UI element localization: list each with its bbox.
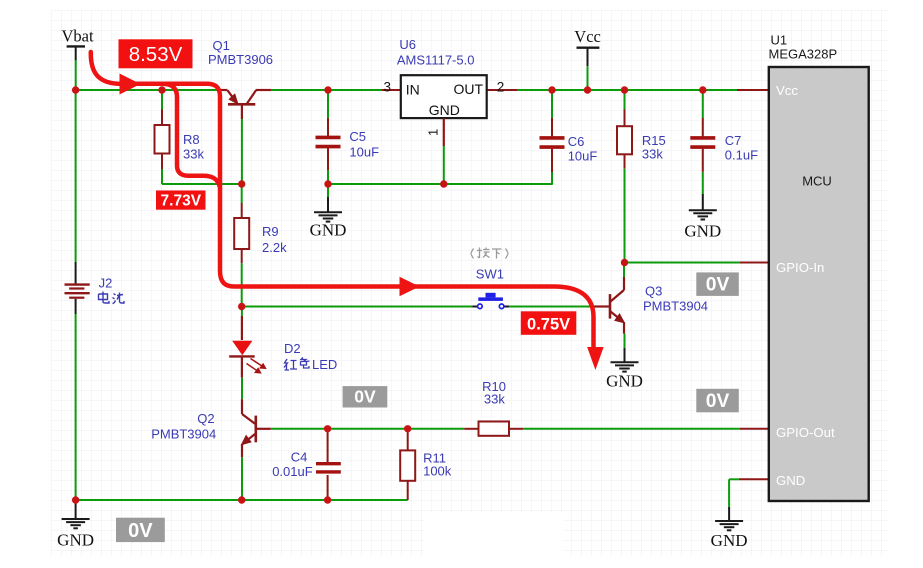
svg-text:10uF: 10uF bbox=[349, 145, 379, 160]
0V label above GPIO-Out row bbox=[343, 386, 388, 407]
switch SW1 bbox=[472, 293, 509, 309]
svg-text:R8: R8 bbox=[183, 132, 200, 147]
svg-text:Q2: Q2 bbox=[197, 411, 214, 426]
ground below Q3 emitter bbox=[606, 334, 643, 391]
wire SW1 to Q3 base bbox=[509, 306, 594, 308]
pin stub Q3 base bbox=[594, 305, 609, 307]
voltage label 8.53V bbox=[119, 39, 193, 68]
svg-text:0V: 0V bbox=[706, 275, 730, 296]
capacitor C7 bbox=[690, 90, 715, 172]
resistor R10 bbox=[464, 422, 523, 436]
red arrowhead 3 down to Q3 GND bbox=[587, 347, 604, 370]
wire left vertical Vbat to battery bbox=[75, 90, 77, 262]
svg-text:0V: 0V bbox=[706, 391, 730, 412]
wire GPIO-Out row left bbox=[271, 428, 464, 430]
svg-text:C4: C4 bbox=[291, 450, 308, 465]
LED D2 bbox=[229, 307, 265, 378]
capacitor C4 bbox=[316, 429, 341, 500]
svg-text:AMS1117-5.0: AMS1117-5.0 bbox=[397, 53, 475, 68]
svg-text:PMBT3906: PMBT3906 bbox=[208, 52, 273, 67]
wire U6 OUT to MCU Vcc bbox=[517, 89, 737, 91]
red arrowhead 1 at top rail bbox=[120, 74, 141, 95]
svg-text:Q3: Q3 bbox=[645, 284, 662, 299]
svg-text:33k: 33k bbox=[183, 147, 204, 162]
resistor R8 bbox=[155, 90, 170, 184]
svg-text:33k: 33k bbox=[642, 147, 663, 162]
svg-text:D2: D2 bbox=[284, 341, 301, 356]
wire MCU GND pin down to gnd bbox=[739, 478, 769, 480]
ground below MCU GND pin bbox=[711, 507, 748, 550]
svg-text:GND: GND bbox=[711, 531, 748, 550]
svg-text:C7: C7 bbox=[725, 133, 742, 148]
wire Q1 base vertical bbox=[241, 105, 243, 119]
svg-text:0V: 0V bbox=[128, 520, 153, 542]
0V label at GPIO-In bbox=[696, 272, 739, 296]
svg-text:10uF: 10uF bbox=[568, 149, 598, 164]
pin stub U6 pin2 bbox=[487, 89, 517, 91]
wire SW1 row from R9 node bbox=[242, 306, 473, 308]
svg-text:Q1: Q1 bbox=[213, 38, 230, 53]
resistor R15 bbox=[617, 90, 632, 263]
svg-text:GND: GND bbox=[684, 221, 721, 240]
svg-text:Vcc: Vcc bbox=[776, 83, 798, 98]
svg-text:R9: R9 bbox=[262, 224, 279, 239]
svg-text:2.2k: 2.2k bbox=[262, 240, 287, 255]
svg-text:100k: 100k bbox=[423, 464, 452, 479]
svg-text:2: 2 bbox=[497, 80, 505, 95]
svg-text:GND: GND bbox=[57, 530, 94, 549]
svg-text:PMBT3904: PMBT3904 bbox=[151, 427, 216, 442]
svg-text:0.1uF: 0.1uF bbox=[725, 148, 758, 163]
svg-text:0.75V: 0.75V bbox=[527, 315, 570, 333]
capacitor C6 bbox=[540, 90, 565, 185]
pin 1 of U6 GND bbox=[426, 118, 444, 184]
power port Vbat bbox=[62, 27, 94, 91]
transistor Q3 PMBT3904 bbox=[610, 263, 624, 334]
svg-text:GND: GND bbox=[429, 102, 460, 118]
svg-text:GND: GND bbox=[606, 371, 643, 390]
svg-text:Vcc: Vcc bbox=[574, 27, 601, 46]
svg-text:MCU: MCU bbox=[802, 174, 832, 189]
wire Q1 collector to U6 IN bbox=[271, 89, 382, 91]
svg-text:U1: U1 bbox=[771, 33, 788, 48]
capacitor C5 bbox=[316, 90, 341, 184]
svg-text:GND: GND bbox=[310, 220, 347, 239]
red path branch around R8 bbox=[165, 84, 220, 186]
svg-text:C6: C6 bbox=[568, 134, 585, 149]
wire GPIO-In row bbox=[625, 262, 741, 264]
svg-text:3: 3 bbox=[383, 79, 391, 94]
svg-text:1: 1 bbox=[426, 129, 441, 136]
label D2 red LED bbox=[284, 341, 337, 372]
power port Vcc bbox=[574, 27, 601, 90]
svg-text:0.01uF: 0.01uF bbox=[272, 464, 313, 479]
label pressed (an xia) gray bbox=[471, 248, 508, 259]
svg-text:GPIO-In: GPIO-In bbox=[776, 260, 824, 275]
red current flow path from Vbat bbox=[91, 52, 604, 370]
wire C5 gnd rail bbox=[328, 183, 552, 185]
ground below C5 rail bbox=[310, 184, 347, 239]
MCU U1 MEGA328P box bbox=[769, 67, 869, 501]
svg-text:U6: U6 bbox=[399, 37, 416, 52]
svg-text:IN: IN bbox=[406, 81, 420, 97]
wire top rail Vbat to Q1 emitter bbox=[76, 89, 220, 91]
svg-text:Vbat: Vbat bbox=[62, 27, 94, 46]
voltage label 7.73V bbox=[156, 191, 206, 210]
svg-text:MEGA328P: MEGA328P bbox=[769, 47, 838, 62]
svg-text:GND: GND bbox=[776, 473, 805, 488]
svg-text:J2: J2 bbox=[99, 276, 113, 291]
pin stub MCU GPIO-In bbox=[740, 262, 769, 264]
svg-text:PMBT3904: PMBT3904 bbox=[643, 299, 708, 314]
pin stub U6 pin3 bbox=[382, 89, 401, 91]
svg-text:8.53V: 8.53V bbox=[129, 43, 183, 66]
wire bottom ground rail bbox=[76, 499, 408, 501]
ground below C7 bbox=[684, 172, 721, 241]
white patch bottom bbox=[424, 512, 564, 556]
svg-text:0V: 0V bbox=[354, 386, 376, 406]
ground bottom left bbox=[57, 500, 94, 549]
resistor R9 bbox=[234, 184, 249, 307]
svg-text:OUT: OUT bbox=[453, 81, 483, 97]
0V label at GPIO-Out bbox=[696, 389, 739, 413]
wire R8 bottom row to Q1 base node bbox=[162, 183, 242, 185]
svg-text:GPIO-Out: GPIO-Out bbox=[776, 425, 835, 440]
svg-text:33k: 33k bbox=[484, 392, 505, 407]
transistor Q2 PMBT3904 bbox=[242, 377, 271, 500]
regulator U6 AMS1117-5.0 bbox=[383, 75, 504, 118]
wire battery to bottom rail bbox=[75, 314, 77, 500]
voltage label 0.75V bbox=[521, 311, 577, 335]
svg-text:C5: C5 bbox=[349, 129, 366, 144]
pin stub MCU GPIO-Out bbox=[740, 428, 769, 430]
wire GPIO-Out row right bbox=[523, 428, 740, 430]
svg-text:7.73V: 7.73V bbox=[161, 193, 202, 210]
label battery (dian chi) bbox=[99, 292, 125, 304]
svg-text:LED: LED bbox=[312, 357, 337, 372]
red arrowhead 2 on SW1 row bbox=[400, 277, 420, 297]
resistor R11 bbox=[400, 429, 415, 500]
battery J2 bbox=[65, 262, 90, 314]
transistor Q1 PMBT3906 bbox=[220, 90, 271, 104]
pin stub MCU Vcc bbox=[737, 89, 769, 91]
svg-text:SW1: SW1 bbox=[476, 267, 504, 282]
0V label bottom left bbox=[116, 518, 165, 542]
